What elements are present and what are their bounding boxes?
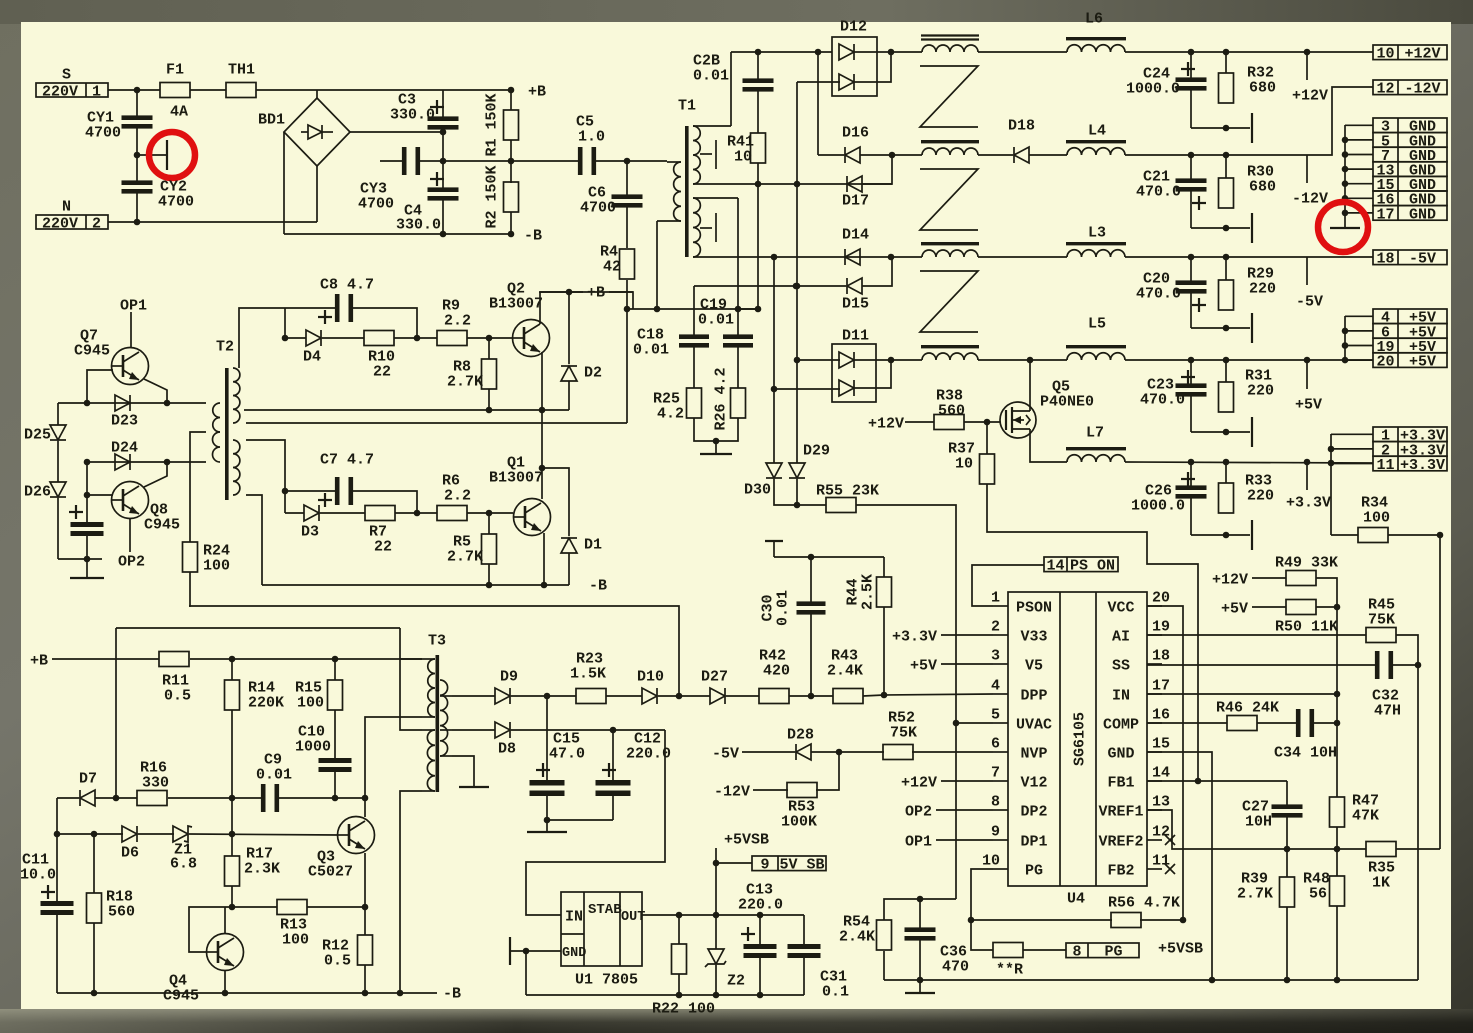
junction (1223, 254, 1230, 261)
wire C20/R29 bottoms (1191, 327, 1250, 329)
svg-text:20: 20 (1376, 354, 1394, 371)
transformer T1 core (685, 126, 689, 257)
svg-text:4700: 4700 (85, 124, 121, 141)
junction (676, 693, 683, 700)
wire Q8 emitter (144, 462, 167, 487)
wire Q7 emitter (144, 379, 167, 403)
svg-text:4700: 4700 (158, 193, 194, 210)
wire (168, 797, 261, 799)
svg-text:D1: D1 (584, 536, 602, 553)
wire Q7 base (87, 370, 113, 403)
svg-text:D18: D18 (1008, 117, 1035, 134)
capacitor C34 10H (1296, 709, 1314, 737)
capacitor C26 (1190, 462, 1192, 488)
svg-text:2.5K: 2.5K (859, 574, 876, 610)
wire -B rail (262, 584, 569, 586)
junction (624, 158, 631, 165)
resistor R52 75K (883, 745, 913, 760)
wire (320, 512, 365, 514)
capacitor C19 plates (723, 334, 753, 347)
svg-text:COMP: COMP (1103, 716, 1139, 733)
wire (941, 780, 993, 782)
wire (510, 212, 512, 234)
svg-text:Z2: Z2 (727, 972, 745, 989)
connector pin9 5V SB (752, 856, 826, 874)
capacitor C27 plates (1272, 804, 1303, 817)
wire (854, 51, 891, 53)
ground (527, 831, 567, 833)
capacitor C31 0.1 (803, 915, 805, 945)
wire bridge out (350, 131, 443, 133)
junction (486, 335, 493, 342)
svg-text:+5VSB: +5VSB (724, 831, 769, 848)
connector pin3 GND (1373, 118, 1447, 136)
svg-text:-B: -B (524, 227, 542, 244)
wire D12 lower out (854, 52, 891, 82)
svg-text:100: 100 (297, 694, 324, 711)
wire -B rail (284, 233, 511, 235)
wire (978, 359, 1067, 361)
junction (1188, 459, 1195, 466)
svg-text:1: 1 (92, 83, 101, 100)
connector 220V pin2 (36, 215, 108, 232)
svg-text:D24: D24 (111, 439, 138, 456)
resistor R45 75K (1366, 628, 1396, 643)
svg-text:2: 2 (92, 215, 101, 232)
svg-text:OP1: OP1 (905, 833, 932, 850)
IC U4 pin 3 V5 (991, 647, 1043, 674)
junction (757, 992, 764, 999)
svg-text:-B: -B (589, 577, 607, 594)
wire (285, 307, 336, 309)
svg-text:2.4K: 2.4K (839, 928, 875, 945)
junction (541, 582, 548, 589)
capacitor C36 470 (919, 899, 921, 929)
IC U4 pin 15 GND (1107, 735, 1170, 762)
svg-text:2.7K: 2.7K (447, 548, 483, 565)
svg-text:+3.3V: +3.3V (892, 628, 937, 645)
wire (1023, 949, 1066, 951)
ground (459, 786, 489, 788)
wire (1225, 462, 1227, 483)
capacitor C20 plates (1176, 280, 1207, 293)
capacitor C31 plates (788, 944, 821, 958)
wire (231, 886, 233, 907)
junction (610, 727, 617, 734)
resistor R17 2.3K (225, 856, 240, 886)
wire Q8 base (87, 494, 113, 496)
svg-text:+5V: +5V (1221, 600, 1248, 617)
ground (1251, 520, 1253, 550)
diode D30 (766, 463, 782, 478)
winding (921, 345, 979, 360)
junction (282, 488, 289, 495)
svg-text:R46 24K: R46 24K (1216, 699, 1279, 716)
capacitor C6 (626, 161, 628, 197)
IC U4 pin 18 SS (1112, 647, 1170, 674)
IC U4 pin 19 AI (1112, 618, 1170, 645)
coupling symbol Z1 (920, 66, 978, 127)
junction (1223, 532, 1230, 539)
wire D15 row (694, 285, 846, 287)
junction (113, 795, 120, 802)
wire (796, 479, 798, 505)
junction (508, 231, 515, 238)
diode D23 (115, 395, 130, 411)
junction (222, 990, 229, 997)
svg-text:2.4K: 2.4K (827, 662, 863, 679)
red circle annotation 2 (1318, 202, 1368, 252)
resistor R50 11K (1286, 600, 1316, 615)
wire R45 right (1396, 635, 1418, 980)
net +12V stub (1306, 52, 1308, 80)
wire primary upper bottom (365, 717, 422, 798)
svg-text:47K: 47K (1352, 807, 1379, 824)
IC U4 pin 17 IN (1112, 677, 1170, 704)
junction (91, 990, 98, 997)
junction (794, 181, 801, 188)
svg-text:N: N (62, 198, 71, 215)
svg-text:C8 4.7: C8 4.7 (320, 276, 374, 293)
inductor L5 (1066, 345, 1126, 360)
junction (544, 817, 551, 824)
wire GND stub (510, 950, 561, 952)
junction (968, 917, 975, 924)
junction (440, 158, 447, 165)
junction (508, 158, 515, 165)
svg-text:220: 220 (1247, 382, 1274, 399)
inductor L6 (1066, 37, 1126, 52)
svg-text:1000.0: 1000.0 (1126, 80, 1180, 97)
wire (753, 789, 788, 791)
transformer T3 primary upper (422, 659, 435, 717)
svg-text:SG6105: SG6105 (1071, 712, 1088, 766)
junction (1195, 778, 1202, 785)
svg-text:+5V: +5V (1409, 354, 1436, 371)
junction (1223, 357, 1230, 364)
winding (921, 140, 979, 155)
junction (1334, 604, 1341, 611)
transformer T1 secondary lower (693, 198, 738, 257)
wire T2 lower to -B (246, 495, 262, 585)
wire (936, 809, 993, 811)
wire (57, 797, 79, 799)
resistor R44 2.5K (883, 557, 885, 577)
svg-text:D30: D30 (744, 481, 771, 498)
wire R1-R2 junction (510, 140, 512, 183)
wire sense column (1336, 607, 1338, 797)
net -5V stub (1306, 257, 1308, 285)
svg-text:14: 14 (1046, 558, 1064, 575)
regulator U1 7805 (561, 892, 642, 966)
wire (1314, 722, 1337, 724)
resistor R22 100 (678, 915, 680, 944)
junction (755, 181, 762, 188)
svg-text:470.0: 470.0 (1136, 285, 1181, 302)
svg-text:220: 220 (1247, 487, 1274, 504)
wire (978, 51, 1067, 53)
wire C26/R33 bottoms (1191, 534, 1250, 536)
wire Q1 collector (541, 468, 543, 499)
wire (1316, 606, 1337, 608)
junction (1334, 691, 1341, 698)
wire Q5 drain (1029, 360, 1031, 411)
ground (70, 577, 104, 579)
junction (164, 400, 171, 407)
capacitor C2B (757, 52, 759, 81)
mosfet Q5 P40NE0 (1000, 402, 1036, 438)
wire (1252, 606, 1286, 608)
wire (742, 751, 795, 753)
transistor Q3 C5027 (338, 817, 375, 854)
wire (941, 634, 993, 636)
junction (808, 554, 815, 561)
svg-text:V33: V33 (1020, 628, 1047, 645)
inductor L3 (1066, 242, 1126, 257)
svg-text:D23: D23 (111, 412, 138, 429)
svg-text:IN: IN (1112, 687, 1130, 704)
wire secondary top to C2B rail (730, 52, 732, 126)
capacitor C36 plates (905, 927, 936, 940)
wire SS to C32 (1147, 664, 1375, 666)
svg-text:P40NE0: P40NE0 (1040, 393, 1094, 410)
capacitor C18 plates (679, 334, 709, 347)
wire (606, 695, 642, 697)
wire (891, 51, 922, 53)
wire CY1/CY2 midpoint to ground (137, 154, 166, 156)
connector pin17 GND (1373, 206, 1447, 224)
capacitor C30 plates (797, 601, 826, 614)
junction (953, 720, 960, 727)
IC U4 pin 8 DP2 (991, 793, 1048, 820)
svg-text:D27: D27 (701, 668, 728, 685)
junction (1304, 459, 1311, 466)
svg-text:1K: 1K (1372, 874, 1390, 891)
transformer T3 primary lower (422, 730, 435, 791)
wire OUT rail (642, 914, 804, 916)
svg-text:V5: V5 (1025, 657, 1043, 674)
svg-text:VREF2: VREF2 (1098, 833, 1143, 850)
svg-text:D26: D26 (24, 483, 51, 500)
svg-text:GND: GND (1409, 206, 1436, 223)
wire R55 to UVAC column (856, 505, 956, 899)
wire UVAC rail (884, 899, 956, 920)
wire (285, 512, 304, 514)
svg-text:12: 12 (1376, 81, 1394, 98)
junction (84, 492, 91, 499)
svg-text:11: 11 (1376, 457, 1394, 474)
ground stub (919, 980, 921, 992)
IC U4 pin 7 V12 (991, 764, 1048, 791)
wire (941, 663, 993, 665)
svg-text:20: 20 (1152, 589, 1170, 606)
svg-text:17: 17 (1152, 677, 1170, 694)
wire D17 up (862, 155, 892, 184)
svg-text:4700: 4700 (580, 199, 616, 216)
wire (854, 359, 891, 361)
wire Q2 emitter (541, 352, 543, 410)
junction (440, 231, 447, 238)
resistor R18 560 (87, 893, 102, 923)
open terminal (765, 541, 783, 557)
svg-text:9: 9 (991, 823, 1000, 840)
diode D24 (115, 454, 130, 470)
junction (1223, 152, 1230, 159)
svg-text:10: 10 (955, 455, 973, 472)
svg-text:0.01: 0.01 (698, 311, 734, 328)
svg-text:L7: L7 (1086, 424, 1104, 441)
capacitor C21 plates (1176, 178, 1207, 191)
junction (1328, 460, 1335, 467)
junction (362, 795, 369, 802)
wire Q3 collector (364, 798, 366, 817)
IC U4 pin 14 FB1 (1107, 764, 1170, 791)
capacitor plates (71, 522, 104, 536)
ground (905, 992, 935, 994)
wire top loop (116, 627, 400, 629)
transformer T1 shield tap (700, 140, 716, 169)
wire Q2 collector (539, 292, 541, 324)
ground (1330, 227, 1360, 229)
svg-text:220.0: 220.0 (626, 745, 671, 762)
wire D1 branch (542, 468, 569, 536)
wire (136, 192, 138, 222)
svg-text:16: 16 (1152, 706, 1170, 723)
ground (1251, 417, 1253, 447)
svg-text:R2 150K: R2 150K (483, 165, 500, 228)
transformer T2 right winding lower (233, 440, 240, 495)
svg-text:56: 56 (1309, 885, 1327, 902)
svg-text:9: 9 (760, 857, 769, 874)
junction (486, 582, 493, 589)
svg-text:U1 7805: U1 7805 (575, 971, 638, 988)
connector pin19 +5V (1373, 338, 1447, 356)
IC U4 SG6105 body (1008, 592, 1147, 886)
wire (1257, 722, 1296, 724)
svg-text:75K: 75K (890, 724, 917, 741)
resistor R7 22 (365, 506, 395, 521)
wire D23 row (58, 402, 206, 404)
junction (1304, 357, 1311, 364)
capacitor C18 (693, 286, 695, 337)
junction (54, 831, 61, 838)
wire lower secondary top to C19 (737, 198, 739, 337)
svg-text:+B: +B (587, 284, 605, 301)
coupling symbol Z3 (920, 271, 978, 332)
net -12V stub (1306, 155, 1308, 183)
svg-text:IN: IN (565, 908, 583, 925)
diode D11b (839, 380, 854, 396)
wire (818, 154, 844, 156)
svg-text:0.5: 0.5 (324, 952, 351, 969)
wire bridge top to rail (316, 90, 318, 98)
resistor R6 2.2 (437, 506, 467, 521)
transistor Q8 C945 (112, 482, 149, 519)
svg-text:560: 560 (938, 402, 965, 419)
wire NVP (912, 751, 993, 753)
wire (883, 951, 885, 980)
wire +12V rail (1125, 51, 1373, 53)
svg-text:PS ON: PS ON (1070, 558, 1115, 575)
svg-text:2.7K: 2.7K (447, 373, 483, 390)
junction (1304, 49, 1311, 56)
diode D11a (839, 352, 854, 368)
wire COMP row (1147, 722, 1227, 724)
diode D4 (306, 330, 321, 346)
svg-text:D25: D25 (24, 426, 51, 443)
svg-text:3: 3 (991, 647, 1000, 664)
wire secondary lower bottom (693, 256, 893, 258)
capacitor C7 4.7 (335, 477, 353, 505)
svg-text:220V: 220V (42, 215, 78, 232)
wire D15 up (862, 257, 892, 286)
wire (279, 797, 365, 799)
svg-text:L4: L4 (1088, 122, 1106, 139)
wire VREF1 to R35 row (1147, 810, 1366, 849)
svg-text:D15: D15 (842, 295, 869, 312)
wire (789, 695, 833, 697)
resistor R53 100K (787, 783, 817, 798)
svg-text:DP1: DP1 (1020, 833, 1047, 850)
diode D1 (561, 538, 577, 553)
diode D14 (845, 249, 860, 265)
capacitor C13 plates (744, 944, 777, 958)
resistor R25 4.2 (687, 388, 702, 418)
svg-text:42: 42 (603, 258, 621, 275)
wire (658, 695, 710, 697)
wire R25/R26 join (694, 418, 738, 441)
svg-text:V12: V12 (1020, 774, 1047, 791)
wire (57, 498, 59, 559)
svg-text:PG: PG (1104, 944, 1122, 961)
svg-text:+12V: +12V (868, 415, 904, 432)
capacitor C32 47H (1375, 651, 1393, 679)
junction (1180, 917, 1187, 924)
connector pin13 GND (1373, 162, 1447, 180)
junction (888, 357, 895, 364)
IC U4 pin 12 VREF2 (1098, 823, 1170, 850)
wire collector tie (541, 410, 543, 468)
wire (1286, 907, 1288, 980)
svg-text:330.0: 330.0 (390, 106, 435, 123)
resistor R22 100 (672, 944, 687, 974)
svg-text:DP2: DP2 (1020, 803, 1047, 820)
wire (525, 951, 527, 995)
diode D12a (839, 44, 854, 60)
junction (1284, 977, 1291, 984)
junction (440, 129, 447, 136)
transistor Q7 C945 (112, 348, 149, 385)
wire (353, 491, 417, 513)
wire (757, 90, 759, 133)
diode D29 (789, 463, 805, 478)
svg-text:75K: 75K (1368, 611, 1395, 628)
capacitor C2B plates (743, 78, 774, 91)
wire Q4 collector (224, 907, 226, 933)
svg-text:B13007: B13007 (489, 469, 543, 486)
connector pin11 +3.3V (1373, 456, 1447, 474)
wire (57, 833, 123, 835)
capacitor C11 10.0 (56, 798, 58, 901)
svg-text:+B: +B (528, 83, 546, 100)
svg-text:L5: L5 (1088, 315, 1106, 332)
diode D18 (1014, 147, 1029, 163)
ground stub (86, 559, 88, 577)
resistor R13 100 (277, 900, 307, 915)
wire D24 row (87, 461, 206, 463)
svg-text:PG: PG (1025, 862, 1043, 879)
connector pin5 GND (1373, 133, 1447, 151)
